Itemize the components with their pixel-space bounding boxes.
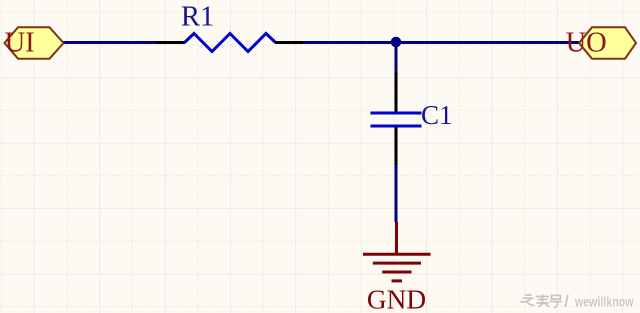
capacitor C1 bottom pin [395, 128, 398, 166]
svg-text:C1: C1 [421, 100, 453, 130]
ground bar 4 [392, 279, 403, 282]
wire from UI port to R1 left pin [62, 41, 157, 44]
svg-text:GND: GND [367, 285, 426, 313]
resistor R1 left pin [157, 41, 185, 44]
svg-text:wewillknow: wewillknow [574, 295, 633, 310]
svg-text:/: / [565, 294, 570, 311]
capacitor C1 top pin [395, 72, 398, 112]
ground stem [395, 222, 398, 254]
port UI body [5, 27, 64, 58]
ground bar 2 [373, 262, 421, 265]
grid: solid horizontal lines [0, 78, 640, 274]
wire junction down to C1 [395, 44, 398, 72]
ground bar 1 [363, 253, 431, 256]
svg-text:UI: UI [5, 28, 35, 59]
wire from R1 to UO port [303, 41, 579, 44]
junction node dot [391, 37, 402, 48]
watermark 头条号 / wewillknow [521, 294, 635, 312]
port UO body [579, 27, 636, 58]
capacitor C1 bottom plate [371, 125, 422, 128]
svg-text:R1: R1 [181, 2, 214, 33]
ground bar 3 [382, 271, 411, 274]
resistor R1 body [185, 34, 276, 52]
resistor R1 right pin [275, 41, 303, 44]
wire C1 to ground [395, 165, 398, 222]
capacitor C1 top plate [371, 112, 422, 115]
svg-text:UO: UO [566, 28, 607, 59]
